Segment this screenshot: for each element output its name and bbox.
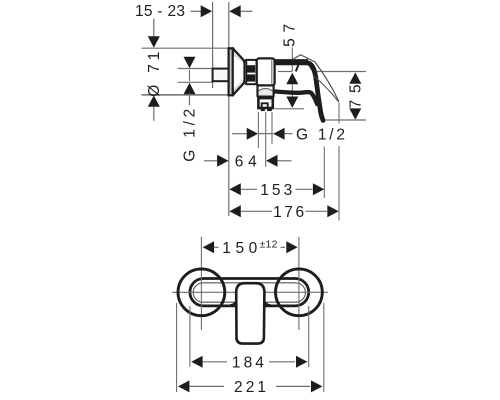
dim 221 right reference line: [323, 303, 325, 392]
handle-body fillet right: [264, 301, 271, 306]
lever top bar: [274, 59, 309, 65]
spout section sides: [258, 85, 274, 96]
horizontal centerline: [172, 291, 328, 293]
svg-text:150: 150: [222, 240, 257, 257]
dim 221 left reference line: [176, 303, 178, 392]
dim 184 left reference line: [189, 306, 191, 367]
svg-text:15 - 23: 15 - 23: [135, 3, 185, 20]
svg-text:±12: ±12: [260, 239, 278, 251]
dim 176 left line: [241, 210, 272, 212]
wall line right / common extension line (wire): [228, 2, 230, 216]
dim 15-23 right tail: [241, 10, 253, 12]
right union vertical centerline: [298, 237, 300, 330]
dim 221 left line: [189, 385, 224, 387]
dim 221 right line: [276, 385, 310, 387]
left union vertical centerline: [200, 237, 202, 330]
dim 75 up arrow: [349, 72, 361, 83]
outlet G1/2 left-pointing arrow: [273, 128, 284, 140]
svg-text:153: 153: [260, 182, 292, 199]
dim 153 right reference line: [323, 147, 325, 199]
dim 184 left line: [203, 361, 227, 363]
dim 184 right arrow: [296, 356, 307, 368]
dim 75 down arrow: [349, 108, 361, 119]
valve body: [257, 58, 275, 85]
dim O71 bottom reference line: [142, 94, 229, 96]
inlet dim top reference line: [178, 68, 213, 70]
pipe nipple through wall: [213, 69, 229, 82]
lever neck right side: [309, 65, 313, 71]
lever neck white fill: [296, 63, 314, 71]
outlet nozzle: [258, 98, 272, 108]
escutcheon cone: [233, 48, 244, 95]
front view body capsule: [190, 279, 309, 306]
union nut recess lower: [247, 74, 255, 81]
spout interior shading: [259, 89, 273, 96]
lever thin top cap: [293, 55, 316, 62]
dim 176 right reference line lower: [338, 146, 340, 221]
outlet thread left extension line: [257, 112, 259, 148]
inlet dim line: [189, 70, 191, 81]
dim 57 bottom reference line: [275, 108, 304, 110]
dim O71 bottom tail: [153, 107, 155, 121]
left escutcheon circle: [178, 269, 225, 316]
dim 221 right arrow: [311, 380, 322, 392]
dim 150 right arrow: [286, 241, 297, 253]
escutcheon flange: [229, 48, 233, 95]
outlet G1/2 right-pointing arrow: [247, 128, 258, 140]
connector tip left: [261, 108, 265, 111]
outlet centre extension line: [265, 112, 267, 167]
front view body capsule inner line: [193, 283, 305, 302]
dim 153 right arrow: [313, 183, 324, 195]
dim 153 right line: [296, 188, 313, 190]
dim O71 top tail: [153, 19, 155, 38]
ref line y71.5 right segment: [314, 71, 367, 73]
svg-text:G 1/2: G 1/2: [296, 127, 345, 144]
outlet G1/2 connecting line: [258, 133, 273, 135]
outlet thread right extension line: [271, 112, 273, 144]
dim 176 right reference line upper: [338, 103, 340, 124]
escutcheon cone highlight: [234, 56, 244, 88]
valve body inner line: [271, 60, 273, 84]
dim 57 upper tail: [291, 47, 293, 71]
spout bottom band: [257, 96, 275, 98]
svg-text:G 1/2: G 1/2: [181, 109, 198, 162]
union neck: [244, 61, 246, 83]
front view handle: [236, 283, 264, 343]
dim 153 left line: [241, 188, 257, 190]
aerator arc: [259, 89, 273, 92]
inlet dim bottom reference line: [178, 81, 213, 83]
dim 64 left arrow: [217, 155, 228, 167]
lever neck left side: [296, 65, 299, 71]
dim 64 right arrow: [266, 155, 277, 167]
union nut: [246, 60, 257, 84]
svg-text:184: 184: [232, 355, 264, 372]
lever thin phantom outer edge: [315, 62, 339, 101]
dim 184 left arrow: [191, 356, 202, 368]
lever underside stroke: [275, 91, 318, 105]
inlet dim top arrow: [184, 57, 196, 68]
dim 15-23 right arrow: [229, 5, 240, 17]
dim 64 right tail: [278, 160, 292, 162]
dim 64 left tail: [204, 160, 217, 162]
ref line y71.5 left segment (cap top): [278, 71, 292, 73]
hose connector: [262, 103, 268, 107]
svg-text:176: 176: [273, 204, 304, 221]
dim 153 left arrow: [229, 183, 240, 195]
svg-text:221: 221: [234, 379, 266, 396]
inlet dim bottom tail: [189, 93, 191, 105]
handle-body fillet left: [230, 301, 237, 306]
lever thin phantom inner edge: [314, 76, 339, 102]
connector tip right: [267, 108, 272, 111]
dim 57 up arrow: [286, 73, 298, 84]
right escutcheon circle: [276, 269, 323, 316]
dim 221 left arrow: [178, 380, 189, 392]
lever descender stroke: [308, 63, 323, 120]
dim 150 left line: [214, 246, 219, 248]
dim 57 line: [291, 84, 293, 97]
outlet G1/2 left tail: [232, 133, 247, 135]
dim 15-23 left tail: [191, 10, 202, 12]
dim 57 down arrow: [286, 97, 298, 108]
dim O71 top arrow: [148, 36, 160, 47]
inlet dim bottom arrow: [184, 83, 196, 94]
outlet G1/2 tail: [285, 133, 293, 135]
dim O71 bottom arrow: [148, 95, 160, 106]
dim 75 bottom reference line: [325, 119, 366, 121]
dim O71 top reference line: [142, 47, 229, 49]
dim 184 right reference line: [308, 306, 310, 367]
dim 176 right line: [306, 210, 328, 212]
dim 184 right line: [269, 361, 295, 363]
dim 150 right line: [281, 246, 286, 248]
dim 176 left arrow: [229, 205, 240, 217]
union nut recess upper: [247, 65, 255, 72]
dim 15-23 left arrow: [201, 5, 212, 17]
dim 150 left arrow: [203, 241, 214, 253]
wall line left (wire): [212, 2, 214, 88]
dim 176 right arrow: [327, 205, 338, 217]
